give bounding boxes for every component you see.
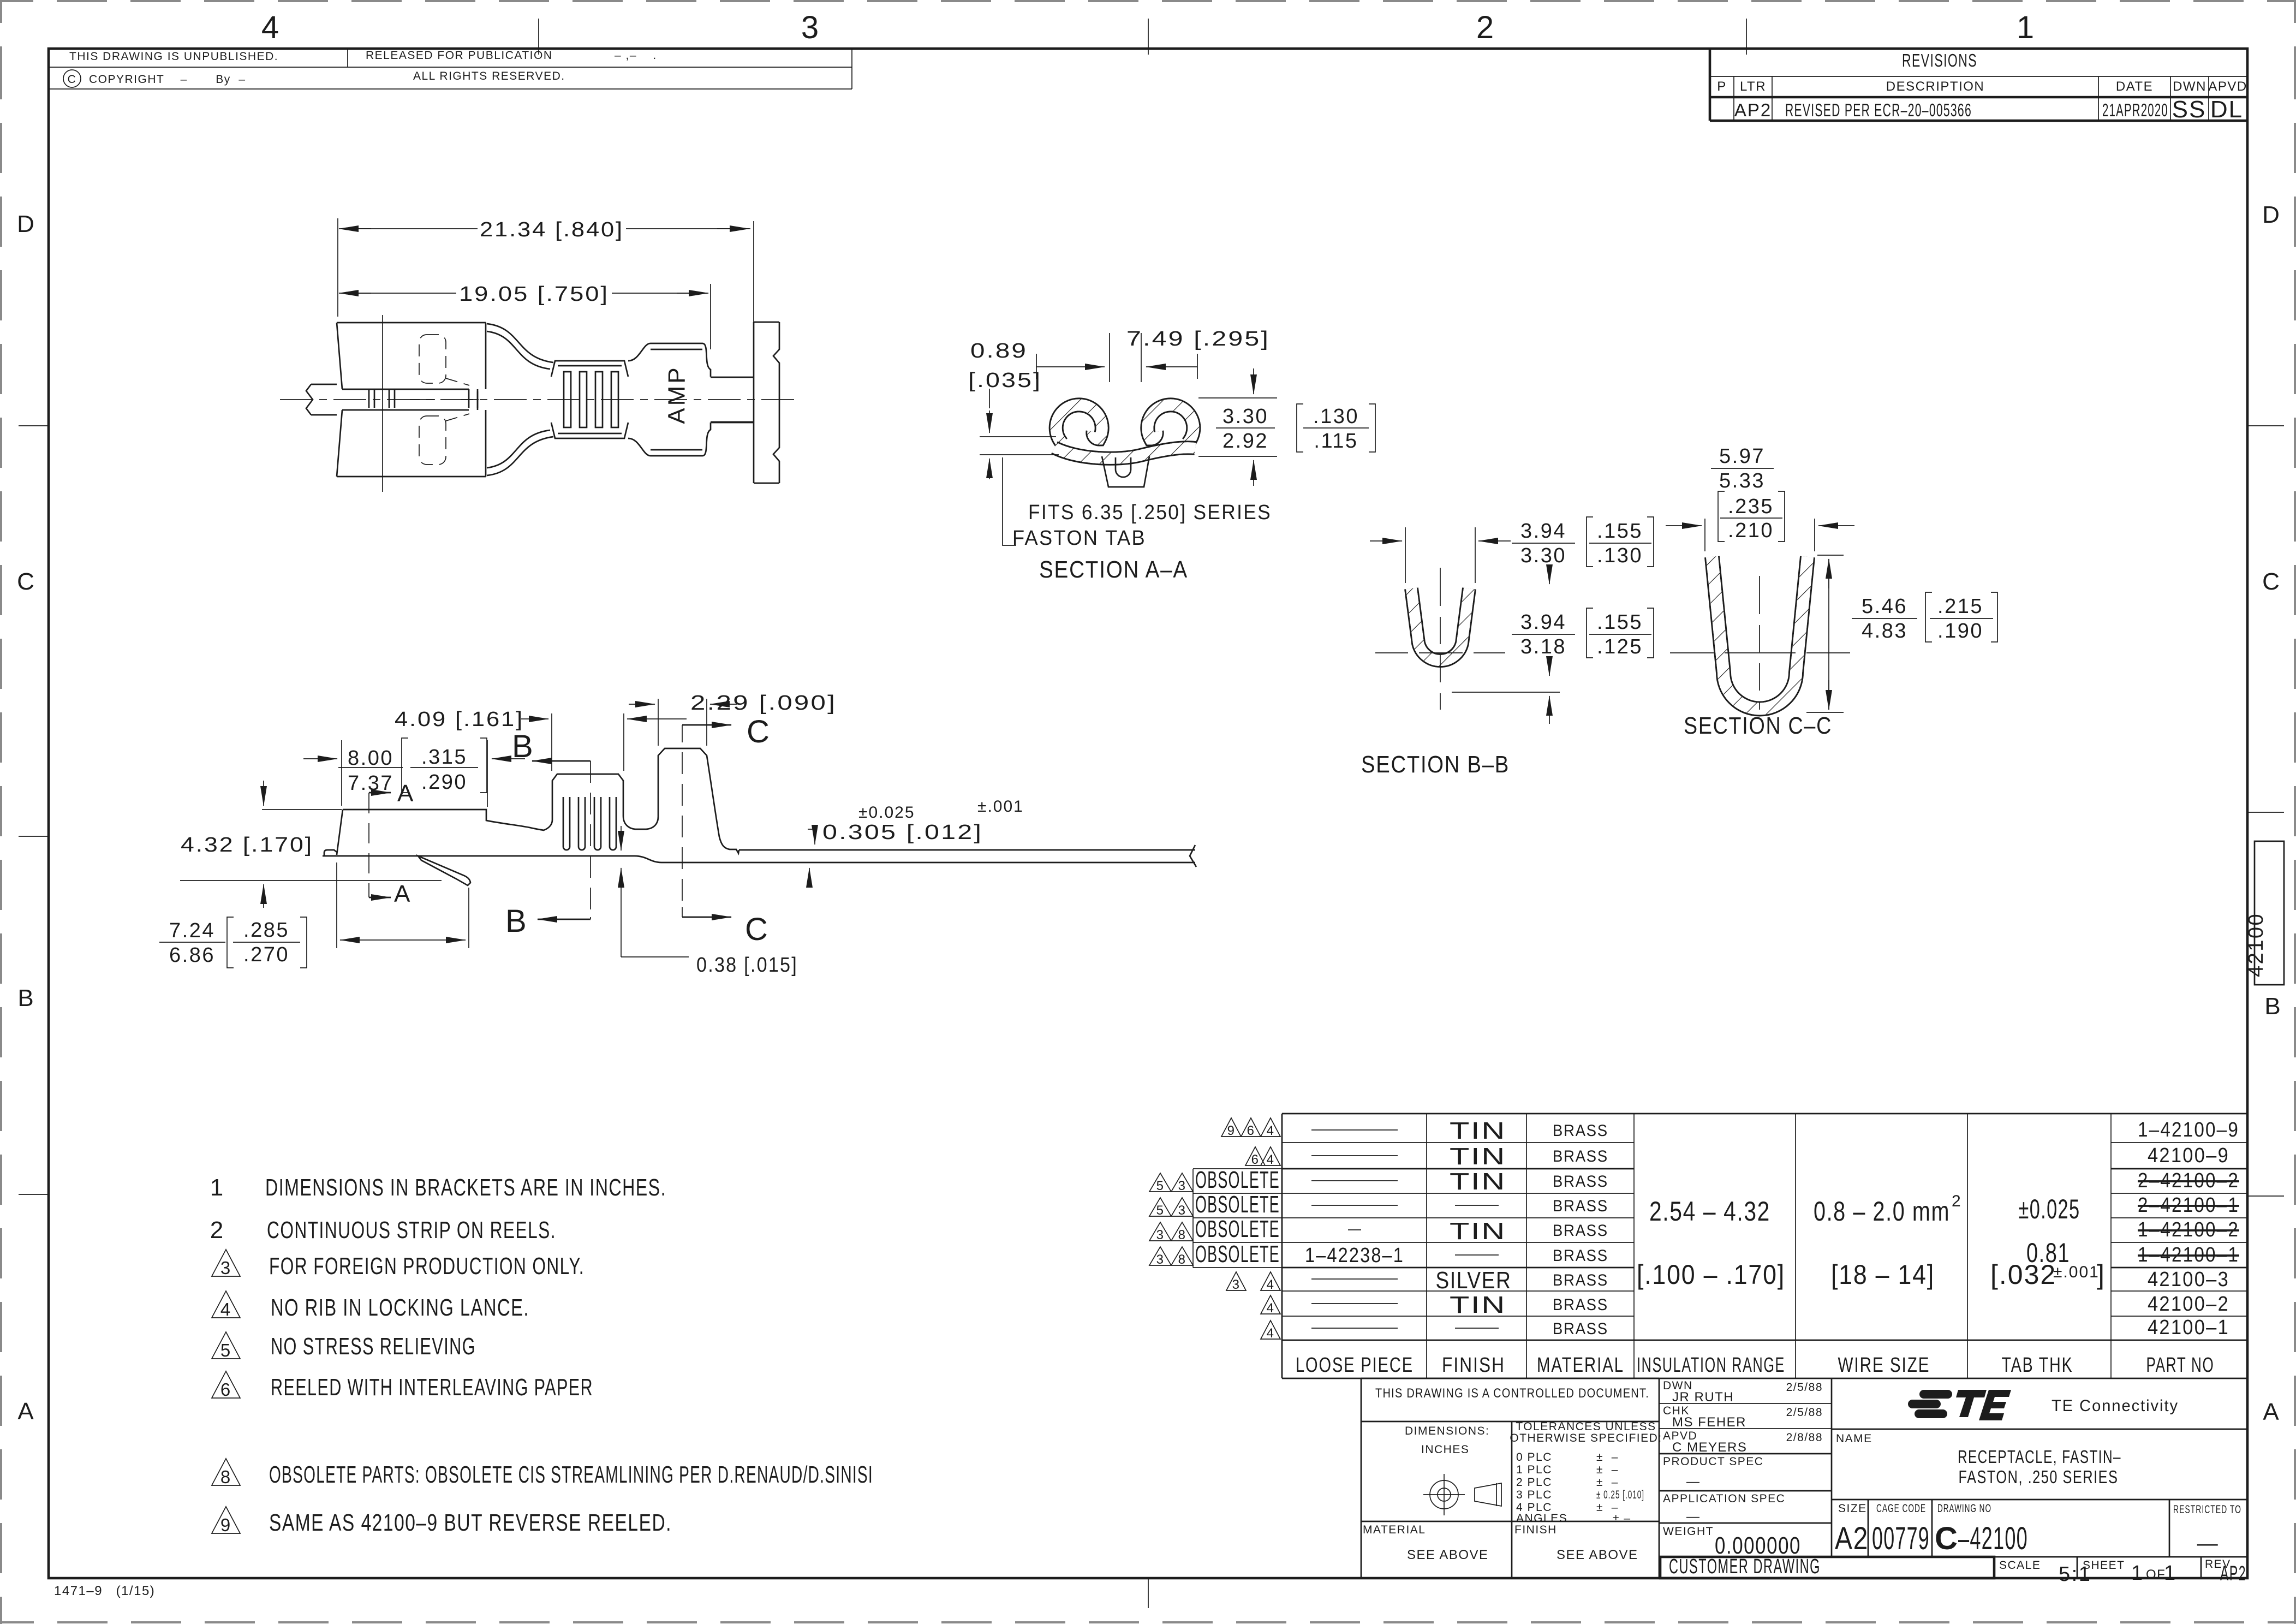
svg-text:TOLERANCES UNLESS: TOLERANCES UNLESS (1516, 1420, 1656, 1433)
svg-text:5.33: 5.33 (1719, 469, 1765, 492)
svg-text:ANGLES: ANGLES (1516, 1512, 1567, 1525)
dim 0.38 [.015] (621, 826, 622, 850)
svg-text:1: 1 (2164, 1562, 2177, 1585)
outer verticals/horizontals (1361, 1378, 2247, 1578)
table outer and merged-column verticals (1282, 1114, 2247, 1378)
dwn/chk/apvd rows (1659, 1403, 1832, 1429)
svg-text:8.00: 8.00 (348, 747, 393, 770)
svg-text:TIN: TIN (1450, 1292, 1506, 1318)
svg-text:8: 8 (220, 1467, 231, 1487)
svg-text:SHEET: SHEET (2083, 1559, 2125, 1572)
svg-text:9: 9 (220, 1515, 231, 1535)
svg-text:SECTION B–B: SECTION B–B (1361, 751, 1510, 778)
svg-text:BRASS: BRASS (1553, 1320, 1608, 1338)
svg-text:±.001: ±.001 (2053, 1263, 2100, 1281)
svg-text:5: 5 (1156, 1179, 1165, 1193)
svg-text:8: 8 (1178, 1252, 1186, 1267)
svg-text:OBSOLETE: OBSOLETE (1195, 1241, 1280, 1268)
svg-text:OBSOLETE: OBSOLETE (1195, 1191, 1280, 1218)
svg-text:FITS 6.35 [.250] SERIES: FITS 6.35 [.250] SERIES (1028, 501, 1272, 524)
svg-text:4: 4 (1267, 1301, 1275, 1316)
svg-text:3: 3 (1156, 1228, 1165, 1242)
svg-text:21.34 [.840]: 21.34 [.840] (480, 218, 624, 241)
svg-text:PART NO: PART NO (2146, 1354, 2215, 1377)
svg-text:4: 4 (1267, 1326, 1275, 1341)
svg-text:± –: ± – (1596, 1464, 1619, 1476)
centerline (280, 399, 799, 400)
svg-text:FINISH: FINISH (1514, 1524, 1557, 1536)
svg-text:RECEPTACLE, FASTIN–: RECEPTACLE, FASTIN– (1958, 1447, 2121, 1467)
svg-text:MS FEHER: MS FEHER (1672, 1415, 1746, 1430)
svg-text:3 PLC: 3 PLC (1516, 1489, 1552, 1501)
svg-text:C: C (745, 912, 769, 947)
svg-text:DATE: DATE (2116, 79, 2153, 94)
svg-text:REELED WITH INTERLEAVING PA: REELED WITH INTERLEAVING PAPER (271, 1374, 593, 1401)
svg-text:DRAWING NO: DRAWING NO (1937, 1502, 1991, 1515)
svg-text:WIRE SIZE: WIRE SIZE (1838, 1354, 1930, 1377)
svg-text:BRASS: BRASS (1553, 1197, 1608, 1215)
svg-text:1–42100–9: 1–42100–9 (2138, 1119, 2239, 1141)
svg-text:21APR2020: 21APR2020 (2102, 100, 2168, 120)
section cut line A-A vertical through plan view (382, 315, 383, 492)
seam band ticks (369, 389, 469, 408)
dim 19.05 [.750] (710, 284, 711, 349)
bottom web (1054, 448, 1195, 459)
svg-text:INCHES: INCHES (1421, 1443, 1469, 1456)
svg-text:6: 6 (1247, 1123, 1255, 1138)
svg-text:3: 3 (1178, 1203, 1186, 1218)
customer drawing thick box (1660, 1557, 1994, 1578)
svg-text:RESTRICTED TO: RESTRICTED TO (2173, 1503, 2241, 1516)
svg-text:.155: .155 (1597, 520, 1643, 543)
svg-text:]: ] (2097, 1259, 2106, 1290)
svg-text:AP2: AP2 (1734, 100, 1772, 120)
zone tick bottom (1148, 1578, 1149, 1608)
svg-text:THIS DRAWING IS A CONTROLL: THIS DRAWING IS A CONTROLLED DOCUMENT. (1375, 1386, 1649, 1401)
svg-text:3.30: 3.30 (1520, 544, 1566, 567)
svg-text:1471–9 (1/15): 1471–9 (1/15) (54, 1584, 155, 1598)
42100 vertical label box right edge (2245, 841, 2284, 985)
svg-text:3: 3 (1232, 1277, 1241, 1292)
svg-text:.235: .235 (1728, 495, 1774, 518)
svg-text:NO RIB IN LOCKING LANCE.: NO RIB IN LOCKING LANCE. (271, 1294, 529, 1321)
svg-text:.125: .125 (1597, 635, 1643, 658)
svg-text:DESCRIPTION: DESCRIPTION (1886, 79, 1985, 94)
svg-text:2: 2 (1476, 10, 1495, 45)
svg-text:SS: SS (2172, 96, 2206, 123)
svg-text:A: A (394, 881, 411, 907)
svg-text:.285: .285 (243, 919, 289, 942)
row contents: loose piece dashes, finish, material (1311, 1130, 1499, 1328)
svg-text:4: 4 (1267, 1123, 1275, 1138)
svg-text:.155: .155 (1597, 611, 1643, 634)
row lines left section (1282, 1143, 1634, 1242)
svg-text:2 PLC: 2 PLC (1516, 1476, 1552, 1489)
svg-text:00779: 00779 (1872, 1521, 1930, 1556)
svg-text:C MEYERS: C MEYERS (1672, 1440, 1747, 1455)
svg-text:4: 4 (1267, 1152, 1275, 1167)
svg-text:42100–2: 42100–2 (2148, 1293, 2229, 1316)
svg-text:4.09 [.161]: 4.09 [.161] (395, 708, 524, 731)
svg-text:0.38 [.015]: 0.38 [.015] (696, 954, 798, 977)
dim 8.00/7.37 [.315/.290] (342, 740, 487, 807)
notes list (210, 1174, 873, 1536)
svg-text:3: 3 (220, 1258, 231, 1278)
svg-text:4: 4 (220, 1299, 231, 1319)
svg-text:.210: .210 (1728, 519, 1774, 542)
svg-text:DL: DL (2210, 96, 2243, 123)
sheet edge perforation dashes (0, 0, 2296, 2)
svg-text:±0.025: ±0.025 (858, 804, 915, 822)
note 4 (212, 1291, 240, 1318)
svg-text:REVISIONS: REVISIONS (1902, 50, 1977, 70)
svg-text:D: D (17, 211, 35, 237)
svg-text:AP2: AP2 (2220, 1562, 2246, 1585)
svg-text:.215: .215 (1937, 595, 1983, 618)
svg-text:BRASS: BRASS (1553, 1247, 1608, 1265)
dim 4.09 [.161] (552, 713, 624, 771)
svg-text:MATERIAL: MATERIAL (1363, 1524, 1426, 1536)
svg-text:2.92: 2.92 (1222, 430, 1268, 453)
top dim 5.97/5.33 [.235/.210] (1705, 519, 1815, 551)
svg-text:2/8/88: 2/8/88 (1786, 1431, 1823, 1444)
svg-text:6: 6 (1251, 1152, 1260, 1167)
svg-text:5.97: 5.97 (1719, 445, 1765, 468)
svg-text:6.86: 6.86 (169, 944, 215, 967)
svg-text:SAME AS 42100–9 BUT REVERS: SAME AS 42100–9 BUT REVERSE REELED. (269, 1509, 672, 1536)
svg-text:C: C (68, 73, 77, 86)
svg-text:TE Connectivity: TE Connectivity (2052, 1397, 2179, 1415)
svg-text:± –: ± – (1596, 1451, 1619, 1464)
svg-text:C: C (747, 714, 771, 749)
svg-text:2: 2 (1952, 1192, 1962, 1210)
svg-text:DIMENSIONS IN BRACKETS ARE: DIMENSIONS IN BRACKETS ARE IN INCHES. (265, 1174, 666, 1201)
svg-text:5.46: 5.46 (1862, 595, 1907, 618)
svg-text:CONTINUOUS STRIP ON REELS.: CONTINUOUS STRIP ON REELS. (267, 1217, 556, 1244)
svg-text:.115: .115 (1314, 430, 1358, 453)
svg-text:4: 4 (261, 10, 280, 45)
svg-text:[18 – 14]: [18 – 14] (1831, 1259, 1935, 1290)
svg-text:—: — (1686, 1474, 1701, 1489)
revisions table top-right (1710, 49, 2247, 123)
svg-text:0 PLC: 0 PLC (1516, 1451, 1552, 1464)
dim 7.24/6.86 [.285/.270] (337, 862, 469, 948)
body outline (323, 856, 1195, 862)
svg-text:CUSTOMER DRAWING: CUSTOMER DRAWING (1669, 1555, 1821, 1578)
svg-text:NAME: NAME (1836, 1432, 1872, 1445)
svg-text:B: B (2264, 993, 2281, 1020)
svg-text:5: 5 (1156, 1203, 1165, 1218)
svg-text:ALL RIGHTS RESERVED.: ALL RIGHTS RESERVED. (413, 70, 565, 82)
svg-text:[.100 – .170]: [.100 – .170] (1637, 1259, 1785, 1290)
svg-text:0.8 – 2.0 mm: 0.8 – 2.0 mm (1814, 1196, 1950, 1227)
center tongue (1102, 456, 1149, 487)
note 3 (212, 1250, 240, 1276)
svg-text:6: 6 (220, 1379, 231, 1400)
svg-text:CAGE CODE: CAGE CODE (1876, 1502, 1926, 1515)
svg-text:0.89: 0.89 (970, 340, 1028, 362)
right ear (1148, 405, 1194, 443)
svg-text:3.30: 3.30 (1222, 405, 1268, 428)
svg-text:FASTON, .250 SERIES: FASTON, .250 SERIES (1959, 1467, 2119, 1487)
svg-text:.130: .130 (1597, 544, 1643, 567)
svg-text:MATERIAL: MATERIAL (1537, 1354, 1624, 1377)
svg-text:INSULATION RANGE: INSULATION RANGE (1637, 1354, 1785, 1377)
svg-text:SEE ABOVE: SEE ABOVE (1407, 1548, 1489, 1562)
note 6 (212, 1371, 240, 1398)
svg-text:1 PLC: 1 PLC (1516, 1464, 1552, 1476)
note 8 (212, 1459, 240, 1485)
svg-text:TIN: TIN (1450, 1117, 1506, 1144)
svg-text:APPLICATION SPEC: APPLICATION SPEC (1663, 1492, 1785, 1505)
svg-text:BRASS: BRASS (1553, 1122, 1608, 1140)
svg-text:OBSOLETE: OBSOLETE (1195, 1216, 1280, 1242)
svg-text:A: A (397, 780, 414, 807)
dim 4.32 [.170] (180, 810, 442, 881)
svg-text:APVD: APVD (2208, 79, 2247, 94)
svg-text:C: C (2262, 568, 2281, 595)
svg-text:2: 2 (210, 1217, 224, 1244)
dashed dimple details (419, 335, 469, 465)
svg-text:DIMENSIONS:: DIMENSIONS: (1405, 1425, 1489, 1437)
svg-text:SECTION C–C: SECTION C–C (1684, 712, 1832, 739)
svg-text:FINISH: FINISH (1442, 1354, 1505, 1377)
svg-text:BRASS: BRASS (1553, 1147, 1608, 1165)
svg-text:±.001: ±.001 (977, 798, 1024, 816)
svg-text:2/5/88: 2/5/88 (1786, 1406, 1823, 1419)
svg-text:1–42238–1: 1–42238–1 (1305, 1244, 1404, 1267)
svg-text:D: D (2262, 201, 2281, 228)
svg-text:3: 3 (1178, 1179, 1186, 1193)
serration slots (wire barrel) (564, 372, 618, 427)
svg-text:OBSOLETE PARTS: OBSOLETE CI: OBSOLETE PARTS: OBSOLETE CIS STREAMLININ… (269, 1461, 873, 1488)
svg-text:RELEASED FOR PUBLICATION: RELEASED FOR PUBLICATION (366, 49, 553, 62)
svg-text:SECTION A–A: SECTION A–A (1039, 556, 1188, 583)
right dim 5.46/4.83 [.215/.190] (1806, 555, 1844, 712)
svg-text:C: C (17, 568, 35, 595)
svg-text:19.05 [.750]: 19.05 [.750] (459, 283, 609, 306)
OBSOLETE side cells rows 3-6 (1193, 1169, 1282, 1268)
svg-text:2/5/88: 2/5/88 (1786, 1381, 1823, 1394)
svg-text:[.032: [.032 (1990, 1259, 2056, 1290)
svg-text:TIN: TIN (1450, 1168, 1506, 1195)
svg-text:SIZE: SIZE (1838, 1502, 1867, 1515)
svg-text:7.24: 7.24 (169, 919, 215, 942)
svg-text:2.29 [.090]: 2.29 [.090] (690, 692, 837, 715)
svg-text:B: B (505, 903, 528, 939)
svg-text:LOOSE PIECE: LOOSE PIECE (1296, 1354, 1414, 1377)
svg-text:TIN: TIN (1450, 1218, 1506, 1245)
svg-text:42100–3: 42100–3 (2148, 1268, 2229, 1291)
zone ticks right (2247, 426, 2284, 1196)
svg-text:REVISED PER ECR–20–005366: REVISED PER ECR–20–005366 (1785, 100, 1972, 120)
svg-text:AMP: AMP (664, 365, 690, 424)
svg-text:BRASS: BRASS (1553, 1222, 1608, 1240)
centerlines (1759, 576, 1760, 710)
note 5 (212, 1332, 240, 1359)
zone ticks top (539, 19, 1746, 55)
svg-text:± –: ± – (1596, 1476, 1619, 1489)
FITS note + leader (1003, 457, 1016, 545)
svg-text:±0.025: ±0.025 (2019, 1194, 2080, 1224)
svg-text:3.94: 3.94 (1520, 611, 1566, 634)
svg-text:[.035]: [.035] (968, 369, 1042, 392)
svg-text:9: 9 (1227, 1123, 1236, 1138)
svg-text:BRASS: BRASS (1553, 1173, 1608, 1191)
svg-text:.190: .190 (1937, 620, 1983, 643)
projection symbol (1423, 1474, 1501, 1515)
svg-text:SILVER: SILVER (1436, 1267, 1512, 1294)
svg-text:42100–1: 42100–1 (2148, 1316, 2229, 1339)
svg-text:NO STRESS RELIEVING: NO STRESS RELIEVING (271, 1333, 476, 1360)
svg-text:TIN: TIN (1450, 1143, 1506, 1170)
svg-text:LTR: LTR (1740, 79, 1766, 94)
svg-text:THIS DRAWING IS UNPUBLISHED: THIS DRAWING IS UNPUBLISHED. (69, 50, 278, 63)
section line A-A (368, 793, 369, 897)
left ear (1056, 405, 1102, 443)
svg-text:1–42100–2: 1–42100–2 (2138, 1218, 2239, 1241)
svg-text:C: C (1935, 1521, 1959, 1556)
svg-text:3.18: 3.18 (1520, 635, 1566, 658)
svg-text:.130: .130 (1313, 405, 1359, 428)
svg-text:3.94: 3.94 (1520, 520, 1566, 543)
svg-text:7.49 [.295]: 7.49 [.295] (1126, 328, 1270, 350)
svg-text:42100–9: 42100–9 (2148, 1144, 2229, 1167)
svg-text:42100: 42100 (2245, 913, 2268, 977)
svg-text:—: — (1686, 1509, 1701, 1524)
svg-text:SEE ABOVE: SEE ABOVE (1556, 1548, 1638, 1562)
svg-text:OTHERWISE SPECIFIED:: OTHERWISE SPECIFIED: (1510, 1432, 1662, 1444)
centerlines (1440, 568, 1441, 710)
svg-text:PRODUCT SPEC: PRODUCT SPEC (1663, 1455, 1763, 1468)
svg-text:OF: OF (2146, 1567, 2166, 1582)
svg-text:COPYRIGHT – By –: COPYRIGHT – By – (89, 73, 246, 86)
locking lance (418, 856, 470, 885)
svg-text:DWN: DWN (2173, 79, 2206, 94)
svg-text:± 0.25 [.010]: ± 0.25 [.010] (1596, 1489, 1644, 1501)
serration slots (563, 797, 616, 850)
svg-text:4.83: 4.83 (1862, 620, 1907, 643)
svg-text:A: A (2263, 1399, 2280, 1425)
svg-text:SCALE: SCALE (1999, 1559, 2041, 1572)
strip end break (1190, 845, 1196, 867)
title block (1361, 1378, 2247, 1586)
dim 21.34 [.840] (338, 218, 754, 328)
svg-text:4: 4 (1267, 1277, 1275, 1292)
carrier strip (711, 322, 779, 483)
svg-text:FOR FOREIGN PRODUCTION ONLY: FOR FOREIGN PRODUCTION ONLY. (269, 1253, 585, 1280)
svg-text:1: 1 (210, 1174, 224, 1201)
plan outline top half (337, 323, 754, 408)
parts table (1193, 1114, 2247, 1378)
svg-text:JR RUTH: JR RUTH (1672, 1390, 1734, 1405)
svg-text:– ,– .: – ,– . (615, 49, 657, 62)
svg-text:—: — (2197, 1532, 2220, 1555)
svg-text:TAB THK: TAB THK (2002, 1354, 2073, 1377)
svg-text:OBSOLETE: OBSOLETE (1195, 1167, 1280, 1193)
svg-text:BRASS: BRASS (1553, 1296, 1608, 1314)
svg-text:± –: ± – (1613, 1512, 1631, 1525)
svg-text:.290: .290 (421, 771, 467, 794)
svg-text:A: A (17, 1398, 34, 1425)
svg-text:5: 5 (220, 1340, 231, 1360)
dim 2.29 [.090] (658, 699, 707, 746)
svg-text:P: P (1717, 79, 1727, 94)
svg-text:2–42100–1: 2–42100–1 (2138, 1194, 2239, 1217)
svg-text:.270: .270 (243, 943, 289, 966)
svg-text:WEIGHT: WEIGHT (1663, 1525, 1714, 1538)
svg-text:.315: .315 (421, 746, 467, 769)
TE logo (1908, 1390, 2011, 1420)
svg-text:7.37: 7.37 (348, 772, 393, 795)
svg-text:B: B (17, 985, 34, 1012)
copyright block top-left (49, 49, 852, 89)
svg-text:–42100: –42100 (1958, 1521, 2028, 1556)
svg-text:A2: A2 (1835, 1521, 1869, 1556)
svg-text:1: 1 (2017, 10, 2035, 45)
svg-text:FASTON TAB: FASTON TAB (1012, 527, 1146, 550)
svg-text:2.54 – 4.32: 2.54 – 4.32 (1649, 1196, 1770, 1227)
zone ticks left (19, 426, 49, 1194)
svg-text:1–42100–1: 1–42100–1 (2138, 1244, 2239, 1266)
row lines part-no column (2111, 1143, 2247, 1316)
svg-text:4.32 [.170]: 4.32 [.170] (181, 834, 313, 856)
svg-text:3: 3 (801, 10, 820, 45)
svg-text:3: 3 (1156, 1252, 1165, 1267)
svg-text:1: 1 (2131, 1562, 2144, 1585)
svg-text:BRASS: BRASS (1553, 1271, 1608, 1289)
svg-text:2–42100–2: 2–42100–2 (2138, 1169, 2239, 1192)
section line C-C (682, 725, 683, 917)
note 9 (212, 1507, 240, 1533)
svg-text:0.305 [.012]: 0.305 [.012] (822, 821, 983, 844)
top dim 3.94/3.30 [.155/.130] (1405, 527, 1475, 583)
left break stub (306, 384, 337, 415)
svg-text:8: 8 (1178, 1228, 1186, 1242)
section line B-B (590, 761, 591, 919)
parts-table note triangles (1149, 1118, 1280, 1341)
